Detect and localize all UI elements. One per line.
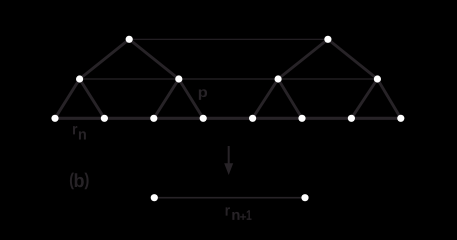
wire: edge T2-M3	[278, 39, 328, 79]
wire: thick bottom path B1-B8	[55, 117, 401, 120]
label p	[199, 89, 207, 100]
node M1	[76, 75, 83, 82]
node M4 (vertex p)	[374, 75, 381, 82]
wire: edge M3-B6	[278, 79, 302, 118]
wire: edge M3-B5	[253, 79, 279, 118]
wire: edge M4-B7	[351, 79, 377, 118]
node M2	[175, 75, 182, 82]
label r_n sub n	[79, 131, 86, 139]
node B7	[348, 115, 355, 122]
wire: edge T1-M2	[129, 39, 179, 79]
node B3	[150, 115, 157, 122]
node T1	[126, 36, 133, 43]
label r_n+1 "n"	[232, 212, 239, 220]
label (b) ")"	[84, 173, 88, 190]
node B1	[51, 115, 58, 122]
node u	[151, 194, 158, 201]
node B5	[249, 115, 256, 122]
wire: middle horizontal edge M1-M4	[80, 78, 378, 80]
wire: top horizontal edge T1-T2	[129, 38, 328, 40]
wire: edge u-v of r_{n+1}	[154, 197, 305, 199]
label r_n+1 "+"	[240, 214, 246, 220]
wire: edge T2-M4	[328, 39, 378, 79]
node B2	[101, 115, 108, 122]
wire: edge M4-B8	[377, 79, 400, 118]
label r_n "r"	[73, 126, 77, 134]
wire: edge M2-B3	[154, 79, 179, 118]
label r_n+1 "1"	[247, 210, 252, 220]
node M3	[275, 75, 282, 82]
label (b) "b"	[75, 173, 84, 187]
node v	[301, 194, 308, 201]
label r_n+1 "r"	[226, 207, 230, 215]
wire: edge T1-M1	[80, 39, 130, 79]
label (b) "("	[70, 173, 74, 190]
wire: edge M1-B1	[55, 79, 80, 118]
node B6	[298, 115, 305, 122]
wire: edge M1-B2	[80, 79, 105, 118]
arrow (transformation)	[224, 146, 233, 175]
node T2	[324, 36, 331, 43]
node B4	[200, 115, 207, 122]
wire: edge M2-B4	[179, 79, 203, 118]
node B8	[397, 115, 404, 122]
